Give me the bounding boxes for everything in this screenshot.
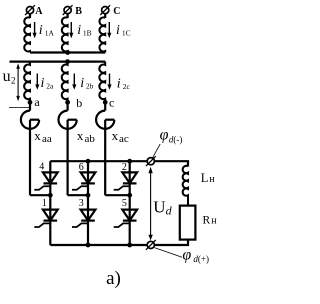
reactor xac [96, 102, 114, 195]
thyristor VS2 [114, 172, 137, 189]
junction dot mid a [48, 193, 53, 198]
secondary winding b [62, 62, 68, 103]
svg-text:aa: aa [42, 133, 52, 145]
svg-text:x: x [77, 128, 84, 143]
svg-text:φ: φ [160, 127, 169, 144]
svg-text:A: A [35, 6, 43, 17]
svg-text:1A: 1A [45, 28, 55, 37]
svg-text:6: 6 [79, 162, 84, 173]
svg-text:b: b [76, 96, 82, 110]
reactor xab [58, 102, 76, 195]
primary winding B [62, 17, 68, 52]
thyristor VS6 [72, 172, 95, 189]
primary winding A [24, 17, 30, 52]
column wire thyristors 4-1 [49, 161, 51, 245]
inductor Ln [183, 166, 188, 206]
svg-text:н: н [209, 174, 215, 185]
current arrow i2b [72, 74, 76, 90]
current arrow i2c [107, 74, 111, 90]
svg-text:2b: 2b [86, 82, 94, 91]
column wire thyristors 2-5 [129, 161, 131, 245]
current arrow i1C [107, 22, 111, 38]
u2 measuring arrow [16, 63, 20, 101]
svg-text:1: 1 [42, 198, 47, 209]
svg-text:2: 2 [11, 75, 16, 85]
bottom bus wire [50, 240, 188, 245]
wire B terminal to winding [66, 14, 68, 19]
svg-text:u: u [3, 68, 11, 85]
node a dot [28, 100, 33, 105]
phase terminal C [100, 5, 110, 15]
svg-text:U: U [153, 197, 165, 216]
svg-text:x: x [112, 128, 119, 143]
junction dot top bus col2 [127, 159, 132, 164]
thyristor VS4 [34, 172, 57, 189]
svg-text:1B: 1B [83, 28, 92, 37]
thyristor VS5 [114, 210, 137, 227]
svg-text:2c: 2c [123, 82, 131, 91]
wire phase c to bridge [105, 194, 130, 196]
svg-text:ab: ab [85, 133, 96, 145]
svg-text:5: 5 [122, 198, 127, 209]
phase terminal B [63, 5, 73, 15]
junction dot secondary rail at b [65, 59, 70, 64]
svg-text:L: L [201, 171, 209, 185]
terminal phi d(+) [146, 240, 156, 250]
svg-text:c: c [109, 96, 114, 110]
svg-text:i: i [41, 76, 45, 91]
svg-text:а): а) [106, 268, 121, 289]
current arrow i1A [33, 22, 37, 38]
leader line phi d(-) [153, 144, 161, 158]
phase terminal A [25, 5, 35, 15]
junction dot mid c [127, 193, 132, 198]
svg-text:2a: 2a [46, 82, 54, 91]
svg-text:i: i [80, 76, 84, 91]
svg-text:d: d [166, 203, 173, 217]
secondary star rail [10, 60, 106, 62]
svg-text:4: 4 [39, 162, 44, 173]
primary neutral wire [30, 51, 105, 53]
leader line phi d(+) [154, 248, 182, 258]
thyristor VS1 [34, 210, 57, 227]
junction dot bottom bus col5 [127, 243, 132, 248]
svg-text:R: R [203, 214, 211, 226]
current arrow i2a [35, 74, 39, 90]
svg-text:н: н [211, 216, 217, 227]
node c dot [103, 100, 108, 105]
u2 lower tick [9, 106, 29, 108]
junction dot mid b [86, 193, 91, 198]
svg-text:3: 3 [79, 198, 84, 209]
svg-text:x: x [34, 128, 41, 143]
secondary winding a [24, 62, 30, 103]
svg-text:1C: 1C [122, 28, 131, 37]
column wire thyristors 6-3 [87, 161, 89, 245]
resistor Rn [180, 206, 196, 240]
current arrow i1B [69, 22, 73, 38]
Ud arrow [148, 167, 152, 241]
top bus wire [50, 161, 188, 166]
svg-text:ac: ac [119, 133, 129, 145]
svg-text:a: a [34, 95, 40, 109]
wire A terminal to winding [29, 14, 31, 19]
svg-text:i: i [116, 23, 120, 38]
wire phase a to bridge [30, 194, 50, 196]
svg-text:i: i [77, 23, 81, 38]
svg-text:φ: φ [182, 246, 191, 263]
svg-text:C: C [113, 6, 120, 17]
wire C terminal to winding [104, 14, 106, 19]
junction dot bottom bus col3 [86, 243, 91, 248]
wire phase b to bridge [68, 194, 88, 196]
node b dot [65, 100, 70, 105]
svg-text:i: i [39, 23, 43, 38]
thyristor VS3 [72, 210, 95, 227]
terminal phi d(-) [146, 156, 156, 166]
svg-text:B: B [75, 6, 82, 17]
svg-text:2: 2 [122, 162, 127, 173]
reactor xaa [21, 102, 39, 195]
svg-text:d(-): d(-) [169, 135, 183, 145]
junction dot primary neutral at B [65, 50, 70, 55]
secondary winding c [99, 62, 105, 103]
junction dot top bus col6 [86, 159, 91, 164]
svg-text:i: i [117, 77, 121, 92]
svg-text:d(+): d(+) [193, 254, 209, 264]
primary winding C [99, 17, 105, 52]
